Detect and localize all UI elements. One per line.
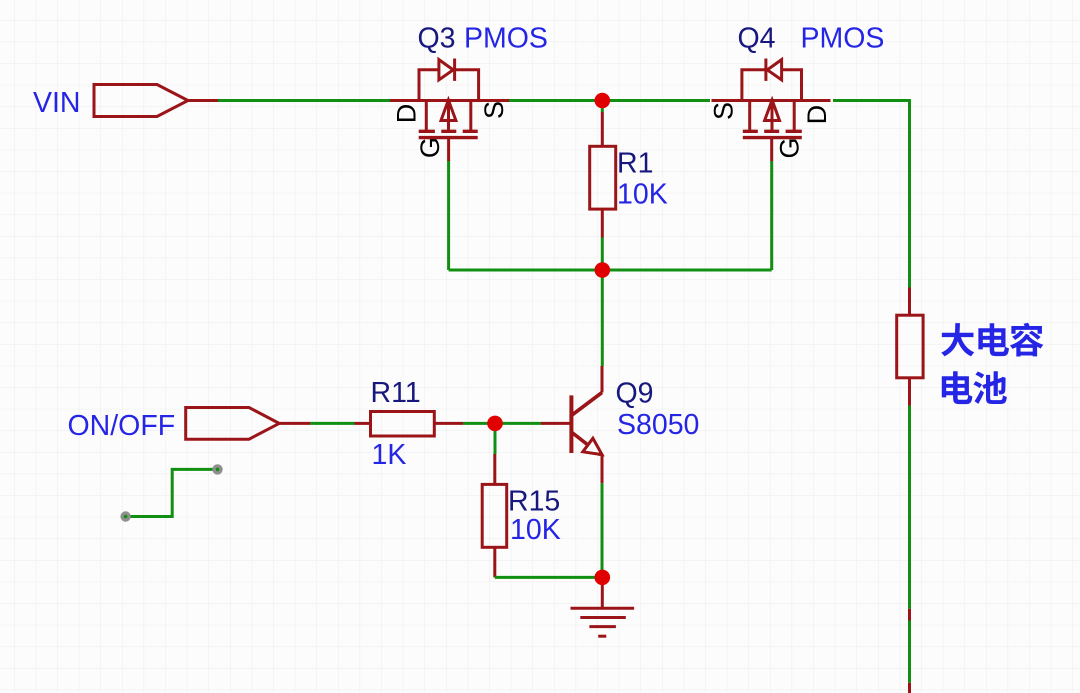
- wire VIN to Q3 drain: [218, 99, 390, 102]
- transistor Q9 S8050: [571, 393, 602, 455]
- wire R11 left lead: [355, 422, 371, 425]
- transistor Q3 PMOS: [390, 59, 509, 138]
- wire R15 top lead: [493, 454, 496, 484]
- port ON/OFF: [186, 408, 280, 440]
- svg-text:Q3: Q3: [418, 23, 456, 55]
- svg-text:ON/OFF: ON/OFF: [68, 410, 176, 442]
- transistor Q4 PMOS: [712, 59, 831, 138]
- wire R1 top stub: [601, 101, 604, 113]
- wire base junction down to R15: [494, 423, 497, 454]
- svg-text:R15: R15: [508, 486, 560, 518]
- svg-text:D: D: [802, 105, 832, 125]
- svg-text:PMOS: PMOS: [464, 23, 548, 55]
- svg-text:10K: 10K: [510, 514, 561, 546]
- wire R11 to Q9 base: [463, 422, 541, 425]
- junction node mid: [595, 262, 611, 278]
- svg-text:R1: R1: [617, 148, 653, 180]
- ground: [571, 577, 635, 636]
- wire emitter down to ground rail: [601, 483, 604, 577]
- svg-text:PMOS: PMOS: [801, 23, 885, 55]
- svg-text:1K: 1K: [372, 439, 407, 471]
- wire R15 bottom lead: [493, 547, 496, 577]
- wire R1 bottom lead: [601, 209, 604, 237]
- svg-text:10K: 10K: [617, 179, 668, 211]
- wire dangling ON/OFF stub: [126, 469, 218, 516]
- wire collector down: [601, 270, 604, 366]
- wire right rail bottom lead: [908, 683, 911, 693]
- svg-text:G: G: [415, 137, 445, 158]
- wire ON/OFF to R11: [310, 422, 354, 425]
- wire R1 top lead: [601, 112, 604, 146]
- wire Q4 drain to right corner: [833, 101, 910, 288]
- label 大电容: [941, 323, 1043, 357]
- svg-text:Q4: Q4: [738, 23, 776, 55]
- wire R1 bottom to mid rail: [601, 238, 604, 271]
- wire Q4 gate down: [770, 161, 773, 270]
- svg-text:Q9: Q9: [616, 378, 654, 410]
- port VIN: [94, 85, 188, 117]
- resistor R1: [590, 146, 616, 209]
- wire right rail pin lead: [908, 609, 911, 621]
- wire R15 to ground junction: [495, 576, 603, 579]
- wire ON/OFF port lead: [279, 422, 310, 425]
- capacitor battery component: [897, 315, 923, 378]
- junction node ground: [595, 570, 611, 586]
- wire Q9 emitter lead: [601, 455, 604, 484]
- svg-text:S: S: [709, 102, 739, 120]
- svg-text:R11: R11: [371, 377, 421, 409]
- svg-text:S: S: [479, 101, 509, 119]
- resistor R15: [482, 484, 507, 547]
- wire mid rail: [449, 269, 772, 272]
- wire Q3 source to Q4 source: [509, 99, 710, 102]
- svg-text:D: D: [392, 104, 422, 124]
- wire right rail down: [908, 406, 911, 609]
- wire right rail upper: [908, 288, 911, 316]
- wire capacitor bottom lead: [908, 378, 911, 406]
- label 电池: [942, 371, 1007, 404]
- node dangling end 2: [212, 464, 222, 474]
- wire Q9 base lead: [541, 422, 571, 425]
- junction node top: [595, 93, 611, 109]
- wire Q3 gate down: [447, 161, 450, 270]
- wire Q3 gate lead: [447, 138, 450, 161]
- wire VIN port lead: [188, 99, 218, 102]
- svg-text:VIN: VIN: [33, 87, 81, 119]
- resistor R11: [371, 412, 435, 437]
- svg-text:G: G: [775, 137, 805, 158]
- junction node base: [487, 416, 503, 432]
- wire Q9 collector lead: [601, 366, 604, 393]
- wire Q4 gate lead: [770, 138, 773, 161]
- node dangling end 1: [120, 511, 130, 521]
- svg-text:S8050: S8050: [617, 409, 699, 441]
- wire right rail lower: [908, 621, 911, 683]
- wire R11 right lead: [434, 422, 463, 425]
